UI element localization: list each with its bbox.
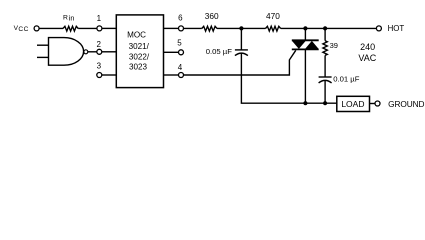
svg-text:240: 240 (360, 42, 375, 52)
svg-text:5: 5 (177, 38, 182, 47)
svg-text:CC: CC (18, 26, 29, 33)
svg-text:in: in (69, 14, 75, 23)
svg-text:39: 39 (330, 41, 338, 50)
svg-text:4: 4 (178, 63, 183, 72)
svg-text:3: 3 (97, 62, 102, 71)
svg-text:0.05 µF: 0.05 µF (206, 47, 233, 56)
svg-text:HOT: HOT (388, 24, 405, 33)
svg-text:470: 470 (266, 11, 280, 21)
svg-text:LOAD: LOAD (341, 99, 364, 109)
svg-text:3023: 3023 (129, 63, 148, 72)
svg-text:0.01 µF: 0.01 µF (333, 74, 360, 83)
svg-text:VAC: VAC (358, 53, 376, 63)
svg-text:3021/: 3021/ (129, 42, 150, 51)
svg-text:2: 2 (96, 40, 101, 49)
svg-text:1: 1 (97, 14, 102, 23)
svg-text:6: 6 (178, 13, 183, 22)
svg-text:GROUND: GROUND (388, 99, 424, 109)
svg-text:360: 360 (205, 11, 219, 21)
svg-text:3022/: 3022/ (129, 53, 150, 62)
svg-text:MOC: MOC (127, 31, 146, 40)
svg-text:R: R (63, 14, 68, 21)
